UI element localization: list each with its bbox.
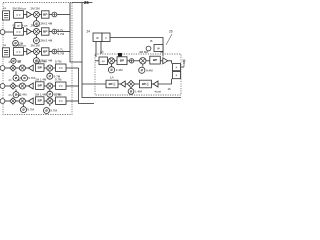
wire mixer3-box row4: [53, 67, 56, 69]
mixer3 row4: [47, 65, 53, 71]
svg-text:µ·µ: µ·µ: [17, 13, 21, 16]
svg-text:BP: BP: [43, 30, 47, 34]
bandpass up1: [117, 57, 127, 65]
oscillator down: [128, 89, 134, 95]
wire osc1 stub row6: [23, 104, 25, 106]
svg-text:BP: BP: [43, 13, 47, 17]
wire row6 to bus: [66, 100, 79, 102]
svg-text:µ·µ: µ·µ: [17, 50, 21, 53]
amplifier row3: [27, 49, 32, 55]
svg-text:2ℎ: 2ℎ: [9, 93, 12, 97]
leader line 26: [166, 34, 172, 45]
oscillator a row5: [13, 92, 19, 98]
wire bp-mixer3 row4: [44, 67, 47, 69]
svg-text:2ℎ: 2ℎ: [9, 78, 12, 82]
oscillator b row6: [44, 108, 50, 114]
modulator block row1: [14, 11, 24, 19]
mixer3 row5: [47, 83, 53, 89]
svg-text:9.7M: 9.7M: [55, 78, 62, 82]
svg-text:2M-2.4M: 2M-2.4M: [40, 22, 52, 26]
hatch in input block 1a: [4, 13, 8, 17]
bandpass filter2 row4: [36, 64, 45, 72]
wire osc b stub row5: [49, 89, 51, 91]
svg-text:BP: BP: [43, 50, 47, 54]
svg-text:2M 1.4M: 2M 1.4M: [35, 78, 47, 82]
svg-text:26: 26: [84, 0, 89, 5]
bandpass filter2 row5: [36, 82, 45, 90]
oscillator row3: [33, 58, 39, 64]
input transducer block 1a: [3, 11, 10, 20]
svg-text:9.7M: 9.7M: [55, 60, 62, 64]
svg-text:4M 6M: 4M 6M: [139, 50, 148, 54]
wire demod-mixer row4: [16, 67, 19, 69]
wire mixer-bp2: [115, 60, 118, 62]
bandpass filter row1: [42, 11, 50, 18]
summer row1: [52, 12, 57, 17]
synthesizer box 24 left cell: [93, 33, 102, 42]
wire mixer2-bp3: [146, 60, 150, 62]
wire demod-mixer row6: [16, 100, 19, 102]
rx amp 1: [120, 81, 125, 87]
svg-text:µ·µ: µ·µ: [59, 67, 63, 70]
svg-text:µ·µ: µ·µ: [59, 85, 63, 88]
wire sum-mixer2: [134, 60, 140, 62]
svg-text:BP: BP: [38, 84, 42, 88]
mixer2 row5: [19, 83, 25, 89]
oscillator b row5: [47, 91, 53, 97]
power amp: [163, 58, 168, 64]
svg-text:µ·µ: µ·µ: [17, 30, 21, 33]
svg-text:9.7M: 9.7M: [55, 93, 62, 97]
svg-text:BP·▒: BP·▒: [142, 82, 149, 86]
synthesizer box 24 right cell: [102, 33, 110, 42]
wire oscD stub: [130, 88, 132, 89]
wire tx combine down: [70, 3, 82, 63]
svg-text:26: 26: [169, 30, 173, 34]
modulator block row2: [14, 28, 24, 36]
if filter row4: [56, 64, 67, 71]
summer up: [129, 59, 133, 63]
amplifier2 row4: [28, 65, 33, 71]
wire top bus: [72, 2, 93, 4]
wire bus to rx row: [82, 83, 106, 85]
wire mixer-amp row4: [25, 67, 28, 69]
wire adder out row2: [57, 31, 70, 33]
svg-text:24: 24: [87, 30, 91, 34]
antenna: [182, 60, 185, 67]
wire filter to adder row2: [49, 31, 52, 33]
svg-text:BP: BP: [153, 58, 157, 62]
demodulator row5: [10, 83, 16, 89]
svg-text:BP·▒: BP·▒: [109, 82, 116, 86]
svg-text:9;4M: 9;4M: [146, 68, 153, 72]
wire bus down x82: [82, 3, 181, 98]
wire amp to mixer row3: [32, 51, 34, 53]
wire filter to adder row1: [49, 14, 52, 16]
wire agc-mixer: [108, 60, 109, 62]
demodulator row4: [10, 65, 16, 71]
amplifier row1: [27, 12, 32, 18]
wire amp to mixer row2: [32, 31, 34, 33]
wire bp3-pa: [160, 60, 163, 62]
wire demod-mixer row5: [16, 85, 19, 87]
duplexer lower: [173, 72, 181, 79]
svg-text:ℓ6: ℓ6: [150, 39, 153, 43]
oscillator up1: [108, 67, 114, 73]
input port 2: [0, 30, 5, 35]
wire pa out: [168, 61, 172, 64]
oscillator a row4: [13, 75, 19, 81]
svg-text:2.4M: 2.4M: [20, 93, 27, 97]
amplifier2 row5: [28, 83, 33, 89]
oscillator b row4: [47, 73, 53, 79]
mixer row1: [33, 12, 39, 18]
wire mixer3-box row5: [53, 85, 56, 87]
summer row3: [52, 49, 57, 54]
bandpass filter row2: [42, 28, 50, 35]
demodulator row6: [10, 98, 16, 104]
bandpass up2: [150, 56, 161, 64]
oscillator b row2: [13, 40, 19, 46]
wire synth to right stack: [110, 38, 163, 57]
modulator block row3: [14, 48, 24, 56]
wire bp2-sum: [127, 60, 129, 62]
amplifier2 row6: [28, 98, 33, 104]
svg-text:2ℎ: 2ℎ: [9, 60, 12, 64]
mixer3 row6: [47, 98, 53, 104]
svg-text:1·4M: 1·4M: [135, 90, 142, 94]
wire rx row right: [158, 79, 172, 84]
wire port 4: [5, 67, 10, 69]
wire row5 to bus: [66, 85, 79, 87]
wire rbox in: [95, 60, 99, 62]
wire mixer to filter row3: [39, 51, 41, 53]
svg-text:▬▪: ▬▪: [14, 37, 18, 40]
if filter row6: [56, 97, 67, 104]
wire bp-mixer3 row6: [44, 100, 47, 102]
svg-text:2M 2M: 2M 2M: [31, 6, 41, 10]
svg-text:44: 44: [160, 50, 164, 54]
wire oscU1 stub: [111, 64, 113, 67]
oscillator a2 row4: [22, 75, 28, 81]
bandpass down2: [139, 80, 151, 88]
bandpass filter2 row6: [36, 97, 45, 105]
clock box row1: [15, 23, 22, 29]
rf transceiver box 14 (dashed): [95, 54, 181, 95]
svg-text:•tone: •tone: [155, 89, 162, 93]
divider box 28: [154, 45, 163, 52]
svg-text:9.7M: 9.7M: [58, 51, 65, 55]
wire modulator to amp row1: [24, 14, 27, 16]
svg-text:9.7M: 9.7M: [50, 109, 57, 113]
output port 4: [0, 66, 5, 71]
wire bp-amp2: [151, 83, 153, 85]
mixer row3: [33, 49, 39, 55]
svg-text:BP: BP: [120, 59, 124, 63]
wire modulator to amp row3: [24, 51, 27, 53]
wire filter to adder row3: [49, 51, 52, 53]
bandpass down1: [106, 80, 118, 88]
wire mixer3-box row6: [53, 100, 56, 102]
wire adder out row1: [57, 14, 70, 16]
svg-text:2M 1.4M: 2M 1.4M: [35, 93, 47, 97]
wire oscU2 stub: [142, 64, 144, 67]
bandpass filter row3: [42, 48, 50, 55]
wire port 6: [5, 100, 10, 102]
wire osc b stub row6: [49, 104, 51, 106]
hatch in input block 3a: [4, 50, 8, 54]
output port 5: [0, 84, 5, 89]
wire mixer to filter row1: [39, 14, 41, 16]
wire osc1 stub row5: [15, 89, 17, 91]
svg-text:4ℎ: 4ℎ: [100, 50, 104, 54]
oscillator up2: [139, 67, 145, 73]
mixer2 row6: [19, 98, 25, 104]
oscillator a row6: [21, 107, 27, 113]
wire mixer-amp row5: [25, 85, 28, 87]
wire osc1 stub row4: [15, 71, 17, 75]
wire duplexer to antenna: [181, 66, 185, 68]
wire osc to mixer row2: [35, 35, 37, 38]
if filter row5: [56, 82, 67, 89]
wire modulator to amp row2: [24, 31, 27, 33]
svg-text:5M 5M-µs: 5M 5M-µs: [13, 6, 27, 10]
svg-text:2M-2.4M: 2M-2.4M: [40, 39, 52, 43]
svg-text:██: ██: [118, 53, 122, 57]
rx mixer diamond: [127, 80, 134, 87]
svg-text:2M 2M: 2M 2M: [31, 43, 41, 47]
wire port 2 to modulator: [5, 31, 14, 33]
svg-text:2M 2M: 2M 2M: [31, 23, 41, 27]
wire rx bus: [79, 68, 95, 104]
wire osc b stub row4: [49, 71, 51, 73]
transmitter module box 12 (dashed): [3, 3, 72, 115]
oscillator b row3: [11, 58, 16, 63]
svg-text:9.7M: 9.7M: [58, 32, 65, 36]
input transducer block 3a: [3, 48, 10, 57]
oscillator row1: [33, 21, 39, 27]
svg-text:2.4M: 2.4M: [116, 68, 123, 72]
mixer up2: [140, 58, 146, 64]
wire port 5: [5, 85, 10, 87]
svg-text:µ·µ: µ·µ: [59, 100, 63, 103]
wire row4 to bus: [66, 67, 79, 69]
reference osc: [146, 46, 151, 51]
summer row2: [52, 29, 57, 34]
wire adder out row3: [57, 51, 70, 53]
wire mixer to filter row2: [39, 31, 41, 33]
duplexer upper: [173, 64, 181, 71]
amplifier row2: [27, 29, 32, 35]
svg-text:9.7M: 9.7M: [27, 108, 34, 112]
svg-text:16: 16: [168, 87, 172, 91]
output port 6: [0, 99, 5, 104]
agc block: [99, 57, 108, 65]
wire mixer-amp row6: [25, 100, 28, 102]
mixer2 row4: [19, 65, 25, 71]
wire bp-mixer3 row5: [44, 85, 47, 87]
svg-text:2M: 2M: [19, 41, 24, 45]
rx amp 2: [153, 81, 158, 87]
svg-text:BP: BP: [38, 66, 42, 70]
wire osc to mixer row3: [35, 55, 37, 58]
svg-text:1ℎ: 1ℎ: [110, 76, 114, 80]
wire synth stub a: [95, 42, 97, 58]
svg-text:BP: BP: [38, 99, 42, 103]
svg-text:2M 1.4M: 2M 1.4M: [35, 60, 47, 64]
wire osc to mixer row1: [35, 18, 37, 21]
mixer up1: [109, 58, 115, 64]
wire synth stub b: [100, 42, 102, 55]
wire bpd-amp: [118, 83, 120, 85]
wire amp to mixer row1: [32, 14, 34, 16]
wire dmix-bp: [135, 83, 140, 85]
oscillator row2: [33, 38, 39, 44]
wire amp-dmixer: [125, 83, 127, 85]
mixer row2: [33, 29, 39, 35]
